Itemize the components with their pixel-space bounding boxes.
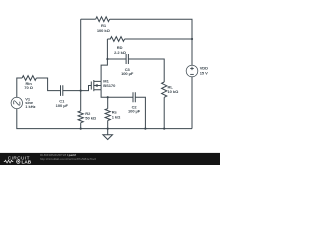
node gate/R2 <box>80 90 82 92</box>
node drain/C3 <box>106 58 108 60</box>
svg-text:BS170: BS170 <box>103 83 116 88</box>
svg-text:100 µF: 100 µF <box>56 103 69 108</box>
svg-text:Rs: Rs <box>112 109 118 114</box>
svg-text:100 µF: 100 µF <box>121 71 134 76</box>
svg-text:15 V: 15 V <box>200 71 208 76</box>
resistor R1 <box>96 17 110 22</box>
wire R2 to rail <box>80 123 82 129</box>
node RL/rail <box>163 128 165 130</box>
wire Rin to C1 <box>36 78 60 91</box>
transistor M1 <box>91 80 101 91</box>
node RD/VDD <box>191 38 193 40</box>
wire RD to VDD rail <box>125 38 192 40</box>
capacitor C1 <box>61 85 63 96</box>
ground <box>103 129 113 140</box>
logo circle <box>17 160 20 163</box>
wire C2 to rail <box>135 97 145 128</box>
svg-text:100 µF: 100 µF <box>128 108 141 113</box>
logo zigzag <box>4 160 14 163</box>
svg-text:70 Ω: 70 Ω <box>24 85 33 90</box>
wire bottom rail <box>17 109 192 129</box>
svg-text:http://circuitlab.com/c/w3mn87: http://circuitlab.com/c/w3mn87u5t84e7bv2 <box>40 157 96 161</box>
wire Rs to rail <box>107 121 109 129</box>
wire C3 to RL <box>128 59 164 82</box>
source V1 <box>11 97 22 108</box>
svg-text:1 kHz: 1 kHz <box>25 104 35 109</box>
svg-text:10 kΩ: 10 kΩ <box>168 89 180 94</box>
wire source node to Rs <box>107 97 109 108</box>
wire source down <box>101 90 133 97</box>
svg-text:LAB: LAB <box>22 159 32 164</box>
svg-text:1 kΩ: 1 kΩ <box>112 115 121 120</box>
wire top rail right segment <box>110 19 192 65</box>
footer bar <box>0 153 220 165</box>
wire RL to rail <box>163 97 165 128</box>
svg-text:50 kΩ: 50 kΩ <box>85 116 97 121</box>
node C2/rail <box>144 128 146 130</box>
labels <box>24 23 208 120</box>
wire VDD to rail <box>191 77 193 129</box>
wire input corner to Rin <box>17 78 22 97</box>
node junction dots <box>80 38 193 130</box>
node Rs/ground/rail <box>107 128 109 130</box>
wire top rail left segment <box>81 18 96 20</box>
source VDD <box>186 65 198 77</box>
node source/Rs <box>107 96 109 98</box>
wire left branch vertical (R1 left to gate node) <box>80 19 82 90</box>
node R2/rail <box>80 128 82 130</box>
capacitor C2 bypass <box>133 92 135 102</box>
wire drain node to C3 <box>107 58 126 60</box>
resistor Rin <box>22 76 36 81</box>
wire C1 to gate <box>63 86 92 91</box>
wire drain to RD <box>101 39 107 81</box>
wire R2 branch <box>80 91 82 111</box>
resistor Rs <box>105 109 110 121</box>
resistor R2 <box>78 111 83 123</box>
resistor RD <box>107 37 124 42</box>
capacitor C3 <box>126 54 128 64</box>
svg-text:2.2 kΩ: 2.2 kΩ <box>114 50 127 55</box>
resistor RL <box>162 82 167 97</box>
svg-text:100 kΩ: 100 kΩ <box>97 28 111 33</box>
